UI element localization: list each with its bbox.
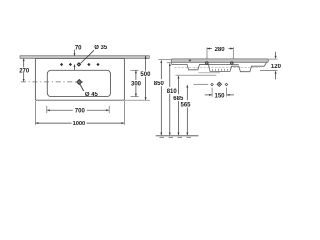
svg-text:120: 120 <box>271 64 282 70</box>
svg-text:1000: 1000 <box>73 121 86 127</box>
svg-text:150: 150 <box>214 93 225 99</box>
svg-text:300: 300 <box>131 81 142 87</box>
svg-text:500: 500 <box>140 72 151 78</box>
svg-text:700: 700 <box>75 108 86 114</box>
svg-text:270: 270 <box>19 68 30 74</box>
svg-text:280: 280 <box>215 47 226 53</box>
svg-text:Ø 35: Ø 35 <box>94 45 108 51</box>
svg-text:810: 810 <box>167 89 178 95</box>
svg-text:70: 70 <box>75 45 82 51</box>
svg-text:Ø 45: Ø 45 <box>85 92 99 98</box>
svg-text:850: 850 <box>154 81 165 87</box>
svg-text:565: 565 <box>180 102 191 108</box>
svg-text:685: 685 <box>173 96 184 102</box>
